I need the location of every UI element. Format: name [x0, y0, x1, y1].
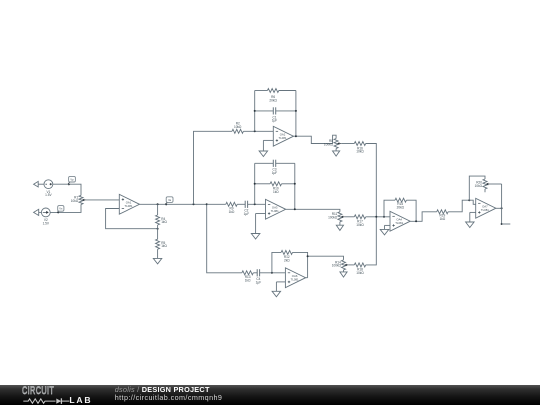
svg-text:1kΩ: 1kΩ	[273, 190, 279, 194]
resistor R18	[354, 263, 365, 275]
ground	[333, 149, 340, 157]
node flag Va	[165, 197, 173, 206]
resistor R12	[281, 250, 292, 262]
svg-text:2kΩ: 2kΩ	[284, 259, 290, 263]
wire	[255, 162, 274, 164]
CircuitLab logo squiggle	[0, 385, 110, 405]
wire	[469, 176, 485, 200]
wire	[50, 204, 81, 212]
resistor R2	[232, 122, 243, 134]
wire	[254, 163, 256, 204]
svg-text:1kΩ: 1kΩ	[245, 279, 251, 283]
wire	[294, 163, 296, 209]
wire	[294, 136, 333, 143]
wire	[366, 144, 377, 217]
wire	[490, 183, 502, 185]
wire	[140, 203, 207, 205]
voltage source V1	[44, 180, 53, 197]
wire	[286, 209, 340, 212]
node flag Vp	[68, 176, 75, 185]
svg-text:1kΩ: 1kΩ	[229, 210, 235, 214]
potentiometer R1	[71, 195, 86, 204]
ground	[466, 212, 475, 227]
wire	[272, 252, 281, 272]
resistor R16	[354, 142, 365, 154]
ground	[336, 222, 343, 231]
svg-text:10kΩ: 10kΩ	[475, 184, 483, 188]
wire	[406, 200, 416, 221]
wire	[333, 135, 337, 143]
capacitor C1	[272, 107, 278, 122]
wire	[308, 256, 344, 260]
resistor R19	[437, 210, 448, 221]
footer url text	[115, 394, 223, 401]
resistor R10	[270, 182, 281, 194]
junction	[206, 203, 208, 205]
wire	[276, 110, 296, 112]
node flag Vn	[57, 206, 64, 214]
ground	[153, 249, 162, 264]
ground	[272, 282, 281, 297]
svg-text:1μF: 1μF	[244, 212, 250, 216]
svg-text:1μF: 1μF	[256, 281, 262, 285]
junction	[468, 199, 470, 201]
wire	[255, 110, 274, 112]
op-amp OA3	[266, 199, 286, 219]
wire	[501, 184, 503, 224]
wire	[39, 211, 42, 213]
wire to top stage	[194, 131, 233, 204]
wire	[263, 139, 273, 141]
junction	[254, 203, 256, 205]
wire	[86, 199, 120, 201]
ground	[251, 214, 260, 240]
junction	[254, 110, 256, 112]
resistor R13	[242, 271, 253, 283]
svg-text:Vp: Vp	[70, 177, 74, 181]
op-amp OA6	[285, 268, 305, 288]
wire	[157, 204, 159, 215]
wire to bottom stage	[207, 204, 242, 272]
current source V2	[41, 208, 50, 225]
wire	[276, 162, 295, 164]
junction	[294, 183, 296, 185]
svg-text:10kΩ: 10kΩ	[356, 223, 364, 227]
wire	[248, 203, 266, 205]
svg-text:TL081: TL081	[271, 209, 279, 213]
wire	[253, 272, 257, 274]
wire	[254, 91, 256, 132]
wire	[157, 225, 159, 229]
wire	[157, 229, 159, 240]
op-amp OA4	[390, 211, 410, 231]
capacitor C3	[272, 160, 278, 175]
ground	[380, 225, 389, 235]
svg-text:TL081: TL081	[395, 221, 403, 225]
wire	[255, 183, 270, 185]
wire	[448, 200, 469, 212]
svg-text:100kΩ: 100kΩ	[324, 142, 334, 146]
wire	[470, 211, 476, 213]
svg-text:100kΩ: 100kΩ	[332, 264, 342, 268]
junction	[157, 228, 159, 230]
potentiometer R8	[324, 139, 341, 149]
svg-text:1.5V: 1.5V	[45, 193, 52, 197]
svg-text:10kΩ: 10kΩ	[356, 150, 364, 154]
capacitor C2	[244, 201, 250, 216]
junction	[375, 216, 377, 218]
wire	[345, 216, 354, 218]
junction	[157, 203, 159, 205]
junction	[295, 110, 297, 112]
op-amp OA1	[119, 194, 139, 214]
junction	[501, 223, 503, 225]
resistor R5	[156, 239, 168, 249]
svg-text:10kΩ: 10kΩ	[71, 199, 79, 203]
svg-text:TL081: TL081	[291, 277, 299, 281]
capacitor C4	[256, 269, 262, 284]
ground	[259, 140, 268, 156]
wire	[256, 213, 266, 215]
junction	[254, 130, 256, 132]
wire	[295, 91, 297, 137]
potentiometer R11	[328, 212, 345, 222]
terminal TP2	[34, 209, 39, 215]
wire	[410, 212, 437, 222]
wire	[341, 143, 354, 145]
svg-text:TL081: TL081	[125, 204, 133, 208]
svg-text:1kΩ: 1kΩ	[161, 244, 167, 248]
pot R20 unconnected stub	[484, 189, 486, 192]
wire	[260, 272, 286, 274]
wire	[306, 277, 308, 279]
wire	[53, 184, 81, 195]
junction	[254, 183, 256, 185]
CircuitLab logo CIRCUIT	[22, 386, 54, 397]
svg-text:20kΩ: 20kΩ	[269, 98, 277, 102]
wire	[237, 203, 245, 205]
potentiometer R20	[475, 179, 490, 189]
resistor R4	[156, 215, 168, 225]
svg-text:20kΩ: 20kΩ	[397, 205, 405, 209]
junction	[383, 216, 385, 218]
op-amp OA7	[476, 198, 496, 218]
wire	[106, 209, 158, 229]
resistor R17	[354, 215, 365, 227]
wire	[293, 252, 308, 277]
junction	[307, 255, 309, 257]
svg-text:Vn: Vn	[59, 207, 63, 211]
svg-text:TL081: TL081	[481, 208, 489, 212]
footer title text	[115, 386, 210, 393]
op-amp OA2	[273, 126, 293, 146]
resistor R15	[395, 198, 406, 209]
junction	[295, 135, 297, 137]
CircuitLab logo LAB	[69, 396, 92, 405]
wire	[207, 203, 226, 205]
svg-text:1μF: 1μF	[272, 119, 278, 123]
wire	[469, 200, 475, 204]
wire	[255, 90, 268, 92]
output wire	[502, 223, 511, 225]
wire	[366, 216, 390, 218]
svg-text:TL081: TL081	[279, 136, 287, 140]
svg-text:1kΩ: 1kΩ	[440, 217, 446, 221]
svg-text:1μF: 1μF	[272, 171, 278, 175]
svg-text:1.5V: 1.5V	[43, 221, 50, 225]
wire	[38, 183, 44, 185]
wire	[276, 281, 285, 283]
wire	[279, 90, 296, 92]
svg-text:10kΩ: 10kΩ	[234, 125, 242, 129]
wire	[384, 200, 395, 217]
wire	[243, 130, 273, 132]
wire	[366, 217, 377, 265]
wire	[496, 207, 502, 209]
junction	[294, 208, 296, 210]
junction	[193, 203, 195, 205]
wire	[385, 224, 391, 226]
junction	[415, 220, 417, 222]
ground	[340, 270, 347, 277]
potentiometer R14	[332, 260, 349, 270]
resistor R9	[226, 202, 237, 214]
svg-text:10kΩ: 10kΩ	[356, 271, 364, 275]
junction	[501, 207, 503, 209]
svg-text:1kΩ: 1kΩ	[161, 220, 167, 224]
junction	[271, 272, 273, 274]
wire	[349, 264, 355, 266]
terminal TP1	[34, 181, 39, 187]
wire	[282, 183, 295, 185]
svg-text:100kΩ: 100kΩ	[328, 216, 338, 220]
resistor R6	[267, 89, 278, 103]
